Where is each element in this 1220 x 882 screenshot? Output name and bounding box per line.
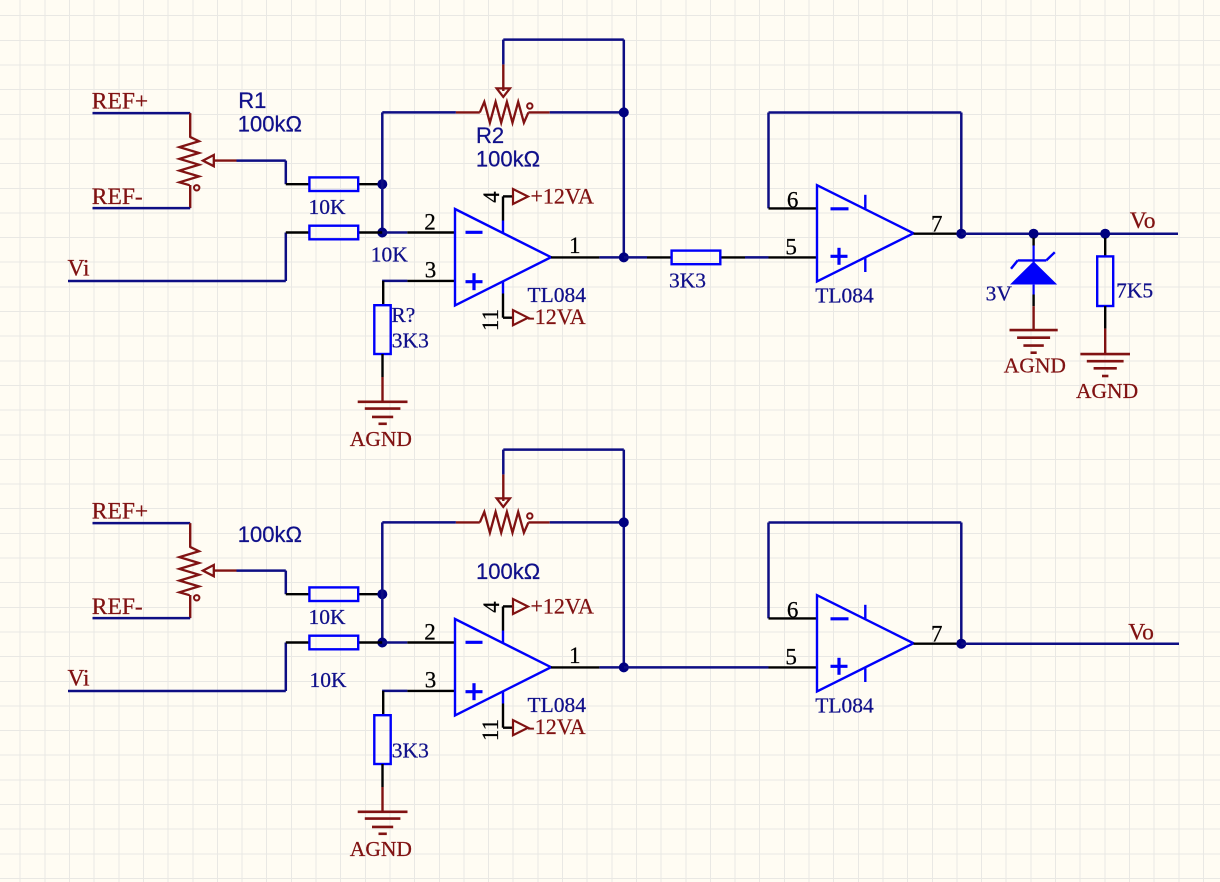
potentiometer R2 wiper arrow xyxy=(497,474,510,507)
ground AGND stem (7K5) xyxy=(1104,329,1106,355)
wire node D to pin 5 (bottom) xyxy=(624,666,769,669)
label 3K3 series xyxy=(669,268,706,292)
label TL084 U2 xyxy=(815,283,874,307)
power port label +12VA xyxy=(531,594,594,619)
svg-text:+12VA: +12VA xyxy=(531,184,594,209)
svg-text:Vi: Vi xyxy=(68,255,91,281)
op-amp U1 pin 2 wire xyxy=(407,641,455,643)
op-amp U2 pin 6 wire xyxy=(769,617,818,619)
svg-text:4: 4 xyxy=(479,601,504,613)
potentiometer R2 wiper arrow xyxy=(497,64,510,97)
resistor 3K3 bottom lead xyxy=(381,354,383,377)
wire REF- xyxy=(93,617,191,620)
net label REF+ (top) xyxy=(92,89,148,115)
potentiometer R2 body (zigzag) xyxy=(480,512,529,533)
resistor 10K #2 body xyxy=(309,636,358,650)
svg-text:10K: 10K xyxy=(309,195,347,219)
svg-text:10K: 10K xyxy=(310,668,348,692)
wire wiper loop xyxy=(503,40,624,258)
op-amp U1 pin 11 stub xyxy=(503,691,513,728)
op-amp U2 pin 4 tick xyxy=(864,195,866,210)
label TL084 U1 xyxy=(528,693,587,717)
pin number 3 xyxy=(425,258,437,283)
zener diode D1 anode lead xyxy=(1032,285,1034,307)
potentiometer R1 pin 2 (bottom lead) xyxy=(189,185,191,208)
potentiometer R2 pin 2 xyxy=(528,521,549,523)
svg-text:7: 7 xyxy=(931,622,943,647)
svg-text:3V: 3V xyxy=(986,281,1013,305)
label TL084 U1 xyxy=(528,283,587,307)
label R2 xyxy=(476,123,504,148)
op-amp U2 body xyxy=(817,595,914,691)
op-amp U2 pin 5 wire xyxy=(769,256,818,258)
net label AGND (7K5) xyxy=(1076,379,1138,403)
op-amp U2 plus sign xyxy=(831,248,848,265)
wire REF+ xyxy=(93,522,191,525)
potentiometer R1 pin 1 (top lead) xyxy=(189,113,191,137)
resistor 10K #2 body xyxy=(309,226,358,240)
net label AGND xyxy=(350,837,412,861)
net label REF- xyxy=(92,184,143,210)
wire node B to pin 2 xyxy=(382,231,407,234)
resistor 3K3 vertical top pin xyxy=(382,691,384,715)
power port label -12VA xyxy=(527,304,585,329)
potentiometer R1 body (zigzag) xyxy=(179,137,199,186)
junction dot node D xyxy=(619,662,629,672)
label R2 value 100k&#937; xyxy=(476,146,540,171)
svg-text:100kΩ: 100kΩ xyxy=(238,112,302,137)
svg-text:7K5: 7K5 xyxy=(1116,279,1153,303)
svg-text:R1: R1 xyxy=(238,88,266,113)
svg-text:1: 1 xyxy=(569,643,581,668)
power port label +12VA xyxy=(531,184,594,209)
op-amp U2 pin 7 wire xyxy=(914,643,962,645)
svg-text:5: 5 xyxy=(785,235,797,260)
junction dot node E xyxy=(956,639,966,649)
op-amp U2 minus sign xyxy=(831,207,849,210)
junction dot node A xyxy=(377,589,387,599)
label 3K3 vertical xyxy=(392,328,429,352)
wire 3K3 to pin 5 xyxy=(745,256,769,259)
wire wiper to node xyxy=(237,571,286,595)
net label Vo (bottom) xyxy=(1128,620,1154,646)
junction dot node C xyxy=(619,517,629,527)
junction dot node E xyxy=(956,229,966,239)
potentiometer R2 body (zigzag) xyxy=(480,102,529,123)
pin number 4 xyxy=(479,601,504,613)
svg-text:3K3: 3K3 xyxy=(392,328,429,352)
svg-text:10K: 10K xyxy=(309,605,347,629)
potentiometer R1 pin 1 (top lead) xyxy=(189,523,191,547)
ground AGND symbol (zener) xyxy=(1010,330,1058,353)
op-amp U1 minus sign xyxy=(466,231,483,234)
svg-text:6: 6 xyxy=(787,188,799,213)
svg-text:Vo: Vo xyxy=(1130,208,1156,234)
label 10K #1 xyxy=(309,195,347,219)
op-amp U1 pin 3 wire xyxy=(407,690,455,692)
wire to pin 3 xyxy=(382,690,407,693)
pin number 7 xyxy=(931,622,943,647)
ground AGND stem xyxy=(381,787,383,812)
op-amp U2 body xyxy=(817,185,914,281)
op-amp U2 pin 7 wire xyxy=(914,232,962,234)
wire buffer feedback loop xyxy=(769,523,962,644)
wire vertical bus at node A xyxy=(381,112,384,232)
pin number 3 xyxy=(425,668,437,693)
svg-text:3K3: 3K3 xyxy=(669,268,706,292)
op-amp U1 body xyxy=(455,619,551,715)
label 10K #2 (bottom) xyxy=(310,668,348,692)
resistor 10K #1 leads xyxy=(286,183,383,185)
resistor 10K #1 body xyxy=(309,177,358,191)
net label Vi xyxy=(68,255,91,281)
power port +12VA arrow xyxy=(513,599,528,614)
potentiometer R1 wiper arrow xyxy=(203,155,237,166)
pin number 6 xyxy=(787,188,799,213)
wire feedback right xyxy=(550,111,624,114)
label R1 value 100k&#937; xyxy=(238,112,302,137)
resistor 7K5 top lead xyxy=(1104,238,1106,257)
svg-text:TL084: TL084 xyxy=(815,283,874,307)
svg-text:REF-: REF- xyxy=(92,184,143,210)
op-amp U1 pin 4 stub xyxy=(503,196,513,233)
wire feedback left xyxy=(382,521,456,524)
svg-text:AGND: AGND xyxy=(1076,379,1138,403)
label TL084 U2 xyxy=(815,693,874,717)
resistor 3K3 vertical body xyxy=(374,715,390,764)
resistor 3K3 series leads xyxy=(647,256,745,258)
wire Vi xyxy=(68,233,286,282)
svg-text:Vi: Vi xyxy=(68,665,91,691)
junction dot node A xyxy=(377,179,387,189)
junction dot node F xyxy=(1029,229,1039,239)
svg-text:Vo: Vo xyxy=(1128,620,1154,646)
potentiometer R2 pin 1 xyxy=(456,111,480,113)
op-amp U2 pin 6 wire xyxy=(769,207,818,209)
wire pin 1 to node D xyxy=(599,666,623,669)
svg-text:100kΩ: 100kΩ xyxy=(238,522,302,547)
svg-text:AGND: AGND xyxy=(1004,354,1066,378)
svg-text:100kΩ: 100kΩ xyxy=(476,146,540,171)
svg-text:-12VA: -12VA xyxy=(527,714,585,739)
op-amp U1 pin 1 wire xyxy=(551,666,599,668)
svg-text:-12VA: -12VA xyxy=(527,304,585,329)
wire REF- xyxy=(93,207,191,210)
ground AGND stem xyxy=(381,377,383,402)
op-amp U1 pin 11 stub xyxy=(503,281,513,318)
pin number 2 xyxy=(424,209,436,234)
zener diode D1 cathode bar xyxy=(1011,252,1055,269)
svg-text:REF-: REF- xyxy=(92,594,143,620)
junction dot node D xyxy=(619,252,629,262)
svg-text:11: 11 xyxy=(478,719,503,741)
zener diode D1 cathode lead xyxy=(1032,238,1034,263)
op-amp U2 plus sign xyxy=(831,658,848,675)
op-amp U1 body xyxy=(455,209,551,305)
svg-text:5: 5 xyxy=(785,645,797,670)
wire to pin 3 xyxy=(382,280,407,283)
resistor 10K #1 body xyxy=(309,587,358,601)
label 3V xyxy=(986,281,1013,305)
ground AGND symbol xyxy=(358,402,408,424)
svg-text:10K: 10K xyxy=(371,243,409,267)
net label Vo xyxy=(1130,208,1156,234)
resistor 7K5 bottom lead xyxy=(1104,306,1106,329)
junction dot node C xyxy=(619,107,629,117)
svg-text:3: 3 xyxy=(425,668,437,693)
label R1 value 100k&#937; (bottom) xyxy=(238,522,302,547)
net label Vi xyxy=(68,665,91,691)
power port -12VA arrow xyxy=(513,720,528,735)
label 10K #2 xyxy=(371,243,409,267)
pin number 4 xyxy=(479,191,504,203)
label R? xyxy=(391,303,415,327)
resistor 10K #2 leads xyxy=(286,231,383,233)
resistor 3K3 vertical body xyxy=(374,305,390,354)
op-amp U2 pin 11 tick xyxy=(864,667,866,682)
potentiometer R1 pin 2 (bottom lead) xyxy=(189,595,191,618)
potentiometer R1 body (zigzag) xyxy=(179,547,199,596)
net label REF+ (bottom) xyxy=(92,499,148,525)
op-amp U1 plus sign xyxy=(466,273,483,290)
wire vertical bus at node A xyxy=(381,522,384,642)
svg-text:3K3: 3K3 xyxy=(392,738,429,762)
svg-text:3: 3 xyxy=(425,258,437,283)
svg-text:REF+: REF+ xyxy=(92,89,148,115)
svg-text:AGND: AGND xyxy=(350,837,412,861)
svg-text:TL084: TL084 xyxy=(528,693,587,717)
label R1 xyxy=(238,88,266,113)
junction dot node B xyxy=(377,228,387,238)
potentiometer R2 pin 1 xyxy=(456,521,480,523)
ground AGND stem (zener) xyxy=(1032,306,1034,330)
label R2 value 100k&#937; (bottom) xyxy=(476,559,540,584)
potentiometer R2 dot marker xyxy=(527,103,532,108)
svg-text:R2: R2 xyxy=(476,123,504,148)
junction dot node B xyxy=(377,638,387,648)
wire output Vo xyxy=(961,232,1178,235)
svg-text:11: 11 xyxy=(478,309,503,331)
potentiometer R2 dot marker xyxy=(527,513,532,518)
power port -12VA arrow xyxy=(513,310,528,325)
wire wiper to node xyxy=(237,161,286,185)
op-amp U1 plus sign xyxy=(466,683,483,700)
op-amp U1 pin 1 wire xyxy=(551,256,599,258)
label 3K3 vertical (bottom) xyxy=(392,738,429,762)
svg-text:1: 1 xyxy=(569,233,581,258)
wire node B to pin 2 xyxy=(382,641,407,644)
potentiometer R2 pin 2 xyxy=(528,111,549,113)
net label AGND (zener) xyxy=(1004,354,1066,378)
pin number 5 xyxy=(785,645,797,670)
resistor 10K #1 leads xyxy=(286,593,383,595)
ground AGND symbol (7K5) xyxy=(1080,354,1130,376)
wire wiper loop xyxy=(503,450,624,668)
op-amp U2 minus sign xyxy=(831,617,849,620)
pin number 1 xyxy=(569,643,581,668)
wire feedback left xyxy=(382,111,456,114)
power port +12VA arrow xyxy=(513,189,528,204)
resistor 3K3 bottom lead xyxy=(381,764,383,787)
pin number 11 xyxy=(478,719,503,741)
svg-text:AGND: AGND xyxy=(350,427,412,451)
svg-text:TL084: TL084 xyxy=(528,283,587,307)
label 7K5 xyxy=(1116,279,1153,303)
op-amp U1 minus sign xyxy=(466,641,483,644)
svg-text:+12VA: +12VA xyxy=(531,594,594,619)
pin number 5 xyxy=(785,235,797,260)
wire buffer feedback loop xyxy=(769,113,962,234)
resistor 3K3 vertical top pin xyxy=(382,281,384,305)
wire REF+ xyxy=(93,112,191,115)
net label AGND xyxy=(350,427,412,451)
wire node D to 3K3 xyxy=(624,256,647,259)
power port label -12VA xyxy=(527,714,585,739)
svg-text:6: 6 xyxy=(787,598,799,623)
wire feedback right xyxy=(550,521,624,524)
svg-text:TL084: TL084 xyxy=(815,693,874,717)
svg-text:2: 2 xyxy=(424,619,436,644)
op-amp U1 pin 4 stub xyxy=(503,606,513,643)
op-amp U2 pin 11 tick xyxy=(864,257,866,272)
wire Vi xyxy=(68,643,286,692)
pin number 11 xyxy=(478,309,503,331)
pin number 2 xyxy=(424,619,436,644)
label 10K #1 xyxy=(309,605,347,629)
svg-text:REF+: REF+ xyxy=(92,499,148,525)
resistor 7K5 body xyxy=(1097,256,1113,306)
wire output Vo (bottom) xyxy=(961,642,1179,645)
potentiometer R1 dot marker xyxy=(194,595,199,600)
svg-text:7: 7 xyxy=(931,212,943,237)
op-amp U1 pin 3 wire xyxy=(407,280,455,282)
pin number 1 xyxy=(569,233,581,258)
resistor 10K #2 leads xyxy=(286,641,383,643)
pin number 7 xyxy=(931,212,943,237)
zener diode D1 anode triangle xyxy=(1012,262,1056,284)
junction dot node G xyxy=(1100,229,1110,239)
svg-text:2: 2 xyxy=(424,209,436,234)
potentiometer R1 wiper arrow xyxy=(203,565,237,576)
svg-text:100kΩ: 100kΩ xyxy=(476,559,540,584)
potentiometer R1 dot marker xyxy=(194,185,199,190)
net label REF- xyxy=(92,594,143,620)
svg-text:4: 4 xyxy=(479,191,504,203)
pin number 6 xyxy=(787,598,799,623)
svg-text:R?: R? xyxy=(391,303,415,327)
op-amp U2 pin 4 tick xyxy=(864,605,866,620)
resistor 3K3 series body xyxy=(672,251,721,265)
wire pin 1 to node D xyxy=(599,256,623,259)
ground AGND symbol xyxy=(358,812,408,834)
op-amp U1 pin 2 wire xyxy=(407,231,455,233)
op-amp U2 pin 5 wire xyxy=(769,666,818,668)
